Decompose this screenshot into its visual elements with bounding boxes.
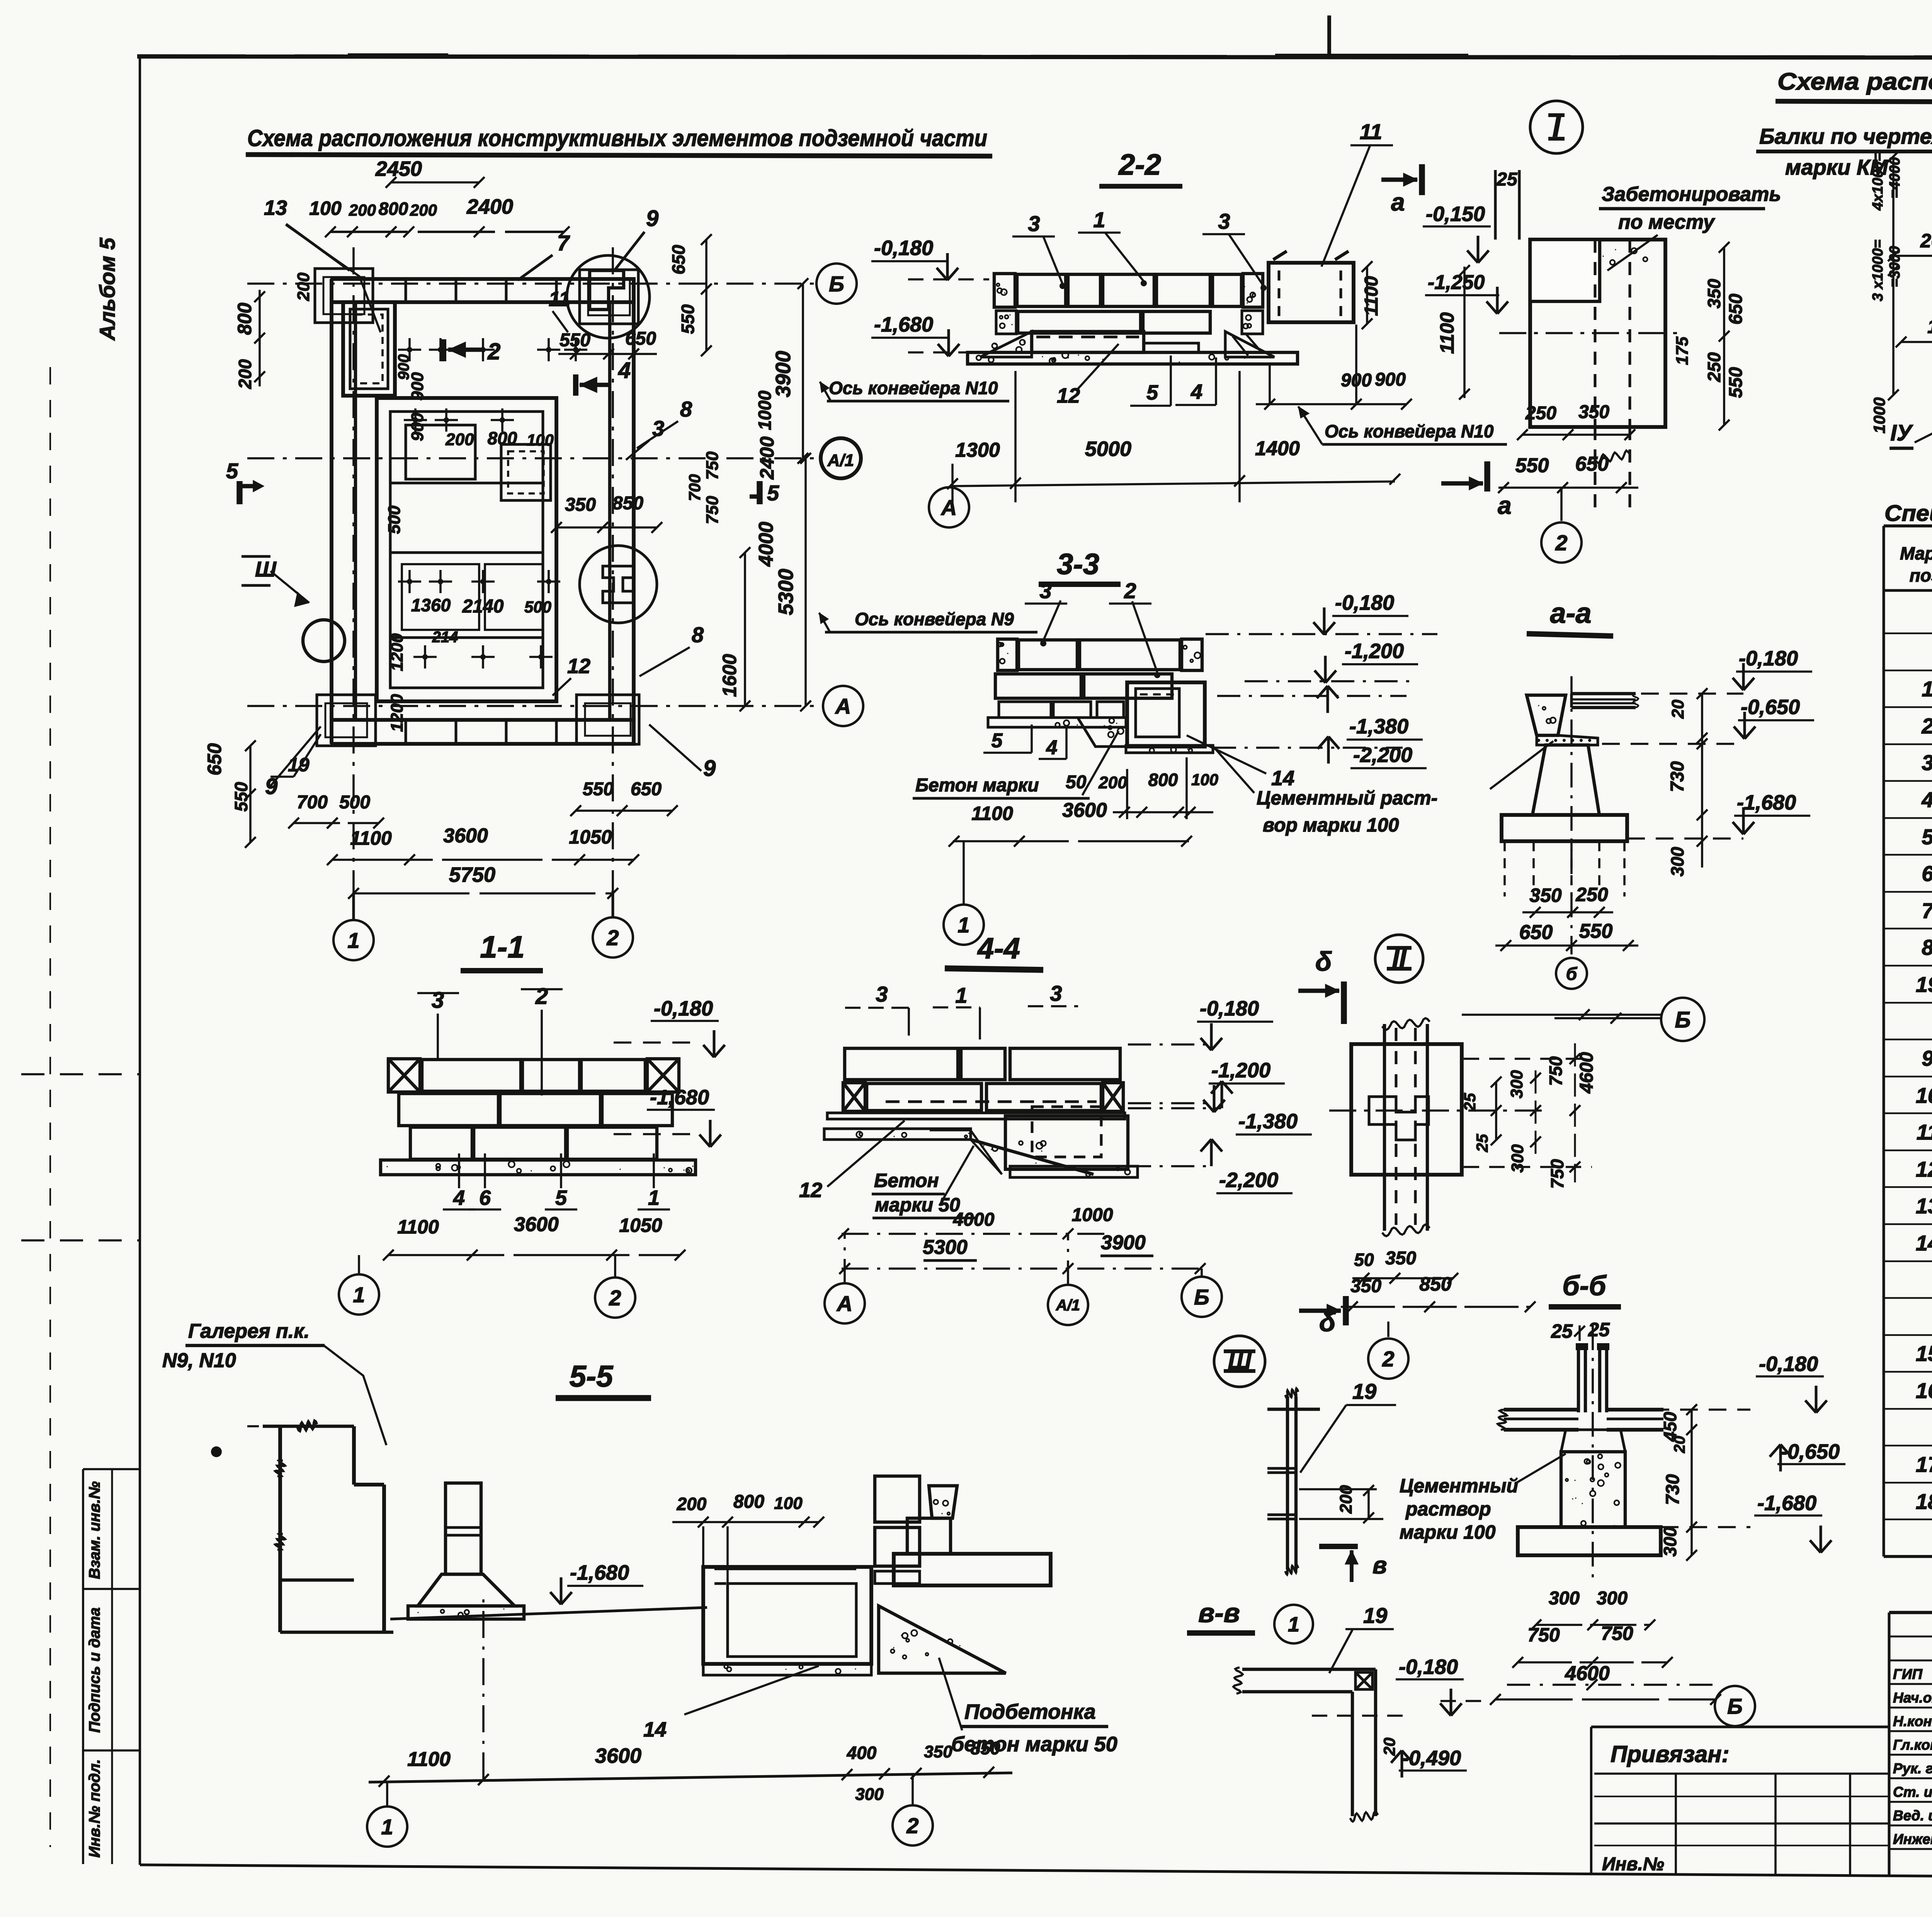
svg-text:3: 3 [1039,578,1051,603]
svg-text:3: 3 [1028,211,1040,236]
svg-text:750: 750 [703,451,722,480]
svg-text:А/1: А/1 [827,451,854,470]
svg-text:250: 250 [1575,884,1608,905]
svg-text:25: 25 [1473,1134,1491,1152]
svg-text:4: 4 [1921,788,1932,812]
svg-text:500: 500 [339,792,370,813]
svg-text:-0,180: -0,180 [1200,997,1259,1020]
svg-text:Цементный: Цементный [1400,1475,1518,1497]
svg-text:-0,180: -0,180 [1759,1352,1818,1376]
svg-text:700: 700 [297,792,328,813]
svg-text:-1,680: -1,680 [1757,1492,1816,1515]
svg-text:800: 800 [733,1492,764,1512]
svg-text:2450: 2450 [375,157,422,180]
svg-text:2: 2 [487,338,500,364]
svg-text:500: 500 [524,598,551,616]
svg-text:4-4: 4-4 [977,932,1020,965]
svg-text:1: 1 [957,913,969,937]
svg-text:Цементный раст-: Цементный раст- [1257,787,1437,809]
svg-text:2140: 2140 [462,596,504,617]
svg-text:200: 200 [677,1494,707,1514]
svg-text:1000: 1000 [1072,1205,1113,1225]
svg-text:350: 350 [924,1742,952,1761]
svg-text:2: 2 [1555,531,1567,555]
svg-text:850: 850 [1419,1273,1452,1295]
svg-text:вор марки 100: вор марки 100 [1263,814,1399,836]
svg-text:4: 4 [1046,737,1058,759]
svg-text:-0,650: -0,650 [1781,1440,1840,1463]
svg-text:5: 5 [992,730,1003,752]
svg-text:50: 50 [1066,772,1087,793]
svg-text:Ст. инж.: Ст. инж. [1893,1784,1932,1800]
svg-text:1: 1 [1093,208,1105,232]
svg-text:350: 350 [565,495,596,515]
svg-text:3900: 3900 [772,351,795,397]
svg-text:Б: Б [1675,1007,1690,1032]
svg-text:800: 800 [379,199,408,219]
svg-text:1600: 1600 [719,654,740,697]
svg-text:3600: 3600 [514,1213,559,1236]
svg-text:750: 750 [1547,1159,1567,1189]
svg-text:-0,180: -0,180 [1399,1655,1458,1679]
svg-text:3: 3 [876,982,888,1006]
svg-text:100: 100 [309,197,342,219]
svg-text:1: 1 [353,1283,365,1307]
svg-text:1100: 1100 [397,1216,439,1238]
svg-text:550: 550 [678,304,698,334]
svg-text:-0,150: -0,150 [1426,202,1485,226]
svg-text:3600: 3600 [443,825,488,847]
svg-text:550: 550 [1726,367,1746,398]
svg-text:1: 1 [648,1186,660,1209]
svg-text:12: 12 [1916,1157,1932,1181]
svg-text:Ось конвейера N10: Ось конвейера N10 [1325,421,1494,441]
svg-text:300: 300 [1667,847,1687,876]
svg-text:300: 300 [1508,1144,1527,1173]
svg-text:Ось конвейера N9: Ось конвейера N9 [855,609,1014,629]
svg-text:1200: 1200 [388,694,406,732]
svg-text:3: 3 [1218,209,1230,233]
svg-text:200: 200 [1920,230,1932,252]
svg-text:Бетон: Бетон [874,1170,939,1191]
svg-text:1000: 1000 [1870,397,1888,433]
svg-text:-0,180: -0,180 [1739,647,1798,670]
svg-text:4: 4 [1190,380,1202,403]
svg-text:Гл.констр.: Гл.констр. [1893,1737,1932,1753]
svg-text:А: А [940,495,957,520]
svg-text:1: 1 [1922,677,1932,701]
svg-text:2: 2 [1382,1347,1394,1371]
svg-text:200: 200 [235,359,255,389]
svg-text:раствор: раствор [1405,1498,1491,1520]
svg-text:550: 550 [1579,920,1613,942]
svg-text:N9, N10: N9, N10 [162,1349,236,1372]
svg-text:Н.контр.: Н.контр. [1893,1713,1932,1729]
svg-text:Инв.№ подл.: Инв.№ подл. [86,1759,103,1858]
svg-text:-0,180: -0,180 [1335,591,1394,614]
svg-text:=3000: =3000 [1887,246,1903,287]
svg-text:-1,200: -1,200 [1345,640,1404,663]
svg-text:Инв.№: Инв.№ [1602,1854,1664,1874]
svg-text:3 x1000=: 3 x1000= [1870,240,1886,301]
svg-text:19: 19 [1363,1603,1387,1628]
svg-text:25: 25 [1496,169,1518,190]
svg-text:50: 50 [1354,1250,1374,1270]
svg-text:2400: 2400 [756,436,778,480]
svg-text:250: 250 [1525,403,1556,424]
svg-text:650: 650 [1575,453,1609,475]
svg-text:100: 100 [774,1494,803,1513]
svg-text:14: 14 [643,1718,667,1741]
svg-text:175: 175 [1673,337,1692,365]
svg-text:IУ: IУ [1890,420,1913,446]
svg-text:700: 700 [685,474,704,501]
svg-text:Рук. гр.: Рук. гр. [1893,1761,1932,1776]
svg-text:15: 15 [1916,1341,1932,1366]
svg-text:2: 2 [535,984,548,1009]
svg-text:3: 3 [1922,750,1932,775]
svg-text:5: 5 [1922,825,1932,849]
svg-text:200: 200 [1098,773,1127,792]
svg-text:5-5: 5-5 [570,1359,614,1393]
svg-text:Б: Б [1194,1285,1209,1309]
svg-text:Подпись и дата: Подпись и дата [86,1607,103,1733]
svg-text:20: 20 [1380,1738,1398,1756]
svg-text:4000: 4000 [953,1209,995,1230]
svg-text:200: 200 [294,272,313,301]
svg-text:13: 13 [264,196,287,219]
svg-text:Б: Б [1727,1694,1743,1718]
svg-text:1100: 1100 [971,803,1013,824]
svg-text:-1,680: -1,680 [570,1561,629,1584]
svg-text:Подбетонка: Подбетонка [964,1700,1096,1723]
svg-text:8: 8 [680,397,692,421]
svg-text:11: 11 [549,287,570,311]
svg-text:1050: 1050 [569,826,612,848]
svg-text:14: 14 [1916,1231,1932,1255]
svg-text:9: 9 [1922,1046,1932,1070]
svg-text:3-3: 3-3 [1057,548,1099,581]
svg-text:300: 300 [1507,1070,1526,1099]
svg-text:3: 3 [432,988,444,1013]
svg-text:Взам. инв.№: Взам. инв.№ [86,1481,103,1579]
svg-text:-1,380: -1,380 [1238,1110,1298,1133]
svg-text:10: 10 [1916,1083,1932,1107]
svg-text:3: 3 [1050,981,1062,1005]
svg-text:1400: 1400 [1255,437,1300,460]
svg-text:850: 850 [612,493,643,514]
svg-text:5: 5 [555,1186,567,1209]
svg-text:8: 8 [692,623,704,647]
svg-text:δ: δ [1315,946,1332,976]
svg-text:350: 350 [1578,402,1609,422]
svg-text:Галерея п.к.: Галерея п.к. [188,1320,310,1342]
svg-text:200: 200 [349,201,376,219]
svg-text:11: 11 [1360,119,1382,144]
svg-text:25: 25 [1461,1093,1479,1111]
svg-text:500: 500 [385,505,404,534]
svg-text:-0,180: -0,180 [654,997,713,1020]
svg-text:Схема расположения плит покры: Схема расположения плит покрытия [1777,68,1932,95]
svg-text:2: 2 [1124,578,1136,603]
svg-text:250: 250 [1704,352,1724,382]
svg-text:Альбом 5: Альбом 5 [95,237,119,341]
svg-text:5: 5 [226,459,238,483]
svg-text:25: 25 [1551,1320,1573,1342]
svg-text:300: 300 [1597,1588,1628,1609]
svg-text:550: 550 [1515,454,1549,477]
svg-text:1: 1 [381,1815,393,1839]
svg-text:100: 100 [1191,771,1218,789]
svg-text:а: а [1391,188,1405,216]
svg-text:730: 730 [1663,1474,1683,1505]
svg-text:18: 18 [1916,1489,1932,1514]
svg-text:ГИП: ГИП [1893,1666,1923,1682]
svg-text:2400: 2400 [466,195,513,218]
svg-text:Нач.отд.: Нач.отд. [1893,1690,1932,1706]
svg-text:12: 12 [567,655,590,678]
svg-text:Привязан:: Привязан: [1611,1741,1729,1767]
svg-text:в-в: в-в [1198,1598,1240,1628]
svg-text:2: 2 [606,925,619,950]
svg-text:Балки по чертежам: Балки по чертежам [1759,124,1932,148]
svg-text:2: 2 [609,1286,621,1310]
svg-text:350: 350 [1704,279,1724,308]
svg-text:б-б: б-б [1562,1271,1607,1301]
svg-text:1100: 1100 [1927,316,1932,337]
svg-text:5300: 5300 [774,569,798,615]
svg-text:3600: 3600 [1062,799,1107,822]
svg-text:13: 13 [1916,1194,1932,1218]
svg-text:650: 650 [625,328,656,349]
svg-text:900: 900 [395,354,412,380]
svg-text:поз.: поз. [1910,565,1932,585]
svg-text:1100: 1100 [1436,312,1458,354]
svg-text:550: 550 [583,779,614,799]
svg-text:5: 5 [1146,381,1158,404]
svg-text:Спецификация к схемам располо: Спецификация к схемам расположения конст… [1884,501,1932,526]
svg-text:а: а [1498,492,1512,519]
svg-text:-1,250: -1,250 [1428,271,1485,294]
svg-text:20: 20 [1668,699,1687,719]
svg-text:-1,200: -1,200 [1211,1059,1270,1082]
svg-text:300: 300 [855,1785,884,1804]
svg-text:1: 1 [347,928,359,953]
svg-text:200: 200 [445,430,474,449]
svg-text:Марка: Марка [1900,543,1932,563]
svg-text:Схема расположения конструктив: Схема расположения конструктивных элемен… [247,125,987,151]
svg-text:100: 100 [527,431,554,449]
svg-text:650: 650 [1519,921,1553,944]
svg-text:750: 750 [703,496,722,524]
svg-text:11: 11 [1917,1120,1932,1144]
svg-text:900: 900 [1375,369,1406,390]
svg-text:650: 650 [668,245,689,274]
svg-text:1-1: 1-1 [480,930,525,964]
svg-text:-1,680: -1,680 [874,313,933,336]
svg-text:350: 350 [1385,1248,1416,1269]
svg-text:8: 8 [1922,935,1932,959]
svg-text:14: 14 [1271,767,1294,790]
svg-text:Ш: Ш [255,557,277,581]
svg-text:4x1000=: 4x1000= [1870,153,1886,211]
svg-text:750: 750 [1601,1623,1633,1644]
svg-text:2: 2 [906,1813,918,1838]
svg-text:1050: 1050 [619,1214,662,1236]
svg-text:7: 7 [557,231,570,255]
svg-text:4600: 4600 [1565,1662,1610,1685]
svg-text:19: 19 [1916,972,1932,997]
svg-text:-0,650: -0,650 [1741,696,1800,719]
svg-text:650: 650 [204,743,225,776]
svg-text:2-2: 2-2 [1118,148,1161,181]
svg-text:800: 800 [488,428,517,448]
svg-text:9: 9 [646,206,658,231]
svg-text:650: 650 [631,779,662,799]
svg-text:А: А [836,1291,852,1316]
svg-text:350: 350 [1350,1276,1381,1296]
svg-text:850: 850 [971,1738,1000,1758]
svg-text:Вед. инж.: Вед. инж. [1893,1808,1932,1823]
svg-text:200: 200 [410,201,437,219]
svg-text:800: 800 [234,303,255,335]
svg-text:марки 50: марки 50 [875,1194,960,1216]
svg-text:650: 650 [1726,294,1746,325]
svg-text:марки 100: марки 100 [1400,1521,1496,1543]
svg-text:730: 730 [1667,761,1688,792]
svg-text:Ось конвейера N10: Ось конвейера N10 [829,378,998,398]
svg-text:7: 7 [1922,898,1932,923]
svg-text:-1,680: -1,680 [1737,791,1796,814]
svg-text:1: 1 [1288,1613,1299,1636]
svg-text:17: 17 [1916,1452,1932,1476]
svg-text:350: 350 [1529,885,1562,906]
svg-text:3600: 3600 [595,1744,641,1767]
svg-text:300: 300 [1549,1588,1580,1609]
svg-text:-2,200: -2,200 [1219,1169,1278,1192]
svg-text:А/1: А/1 [1056,1297,1080,1314]
svg-text:Забетонировать: Забетонировать [1602,183,1781,206]
svg-text:12: 12 [1057,384,1080,407]
svg-text:1100: 1100 [407,1748,451,1771]
svg-text:а-а: а-а [1550,597,1592,629]
svg-text:400: 400 [847,1743,877,1763]
svg-text:16: 16 [1916,1378,1932,1403]
svg-text:=4000: =4000 [1887,157,1903,199]
svg-text:4: 4 [453,1186,465,1209]
svg-text:5: 5 [767,481,779,505]
svg-text:4000: 4000 [755,522,777,567]
svg-text:20: 20 [1671,1436,1688,1454]
svg-text:1200: 1200 [388,633,406,671]
svg-text:Бетон марки: Бетон марки [915,775,1039,796]
svg-text:2: 2 [1921,714,1932,738]
svg-text:900: 900 [408,413,427,441]
svg-text:3900: 3900 [1101,1232,1146,1254]
svg-text:-0,490: -0,490 [1402,1747,1461,1770]
svg-text:в: в [1372,1552,1387,1579]
svg-text:750: 750 [1546,1056,1566,1086]
svg-text:6: 6 [1922,861,1932,886]
svg-text:1: 1 [955,983,967,1007]
svg-text:5300: 5300 [923,1236,968,1259]
svg-text:5750: 5750 [449,863,495,886]
svg-text:Б: Б [829,272,844,296]
svg-text:-1,380: -1,380 [1349,715,1408,738]
svg-text:25: 25 [1588,1319,1610,1340]
svg-text:9: 9 [703,756,716,781]
svg-text:6: 6 [479,1186,491,1209]
svg-text:А: А [835,694,851,718]
svg-text:4: 4 [618,358,631,383]
svg-text:-0,180: -0,180 [874,236,933,260]
svg-text:1000: 1000 [755,390,775,430]
svg-text:19: 19 [1352,1379,1376,1403]
svg-text:214: 214 [432,629,458,646]
svg-text:1100: 1100 [350,827,392,849]
svg-text:750: 750 [1527,1624,1560,1646]
svg-text:5000: 5000 [1085,437,1131,461]
svg-text:12: 12 [799,1179,822,1202]
svg-text:1360: 1360 [411,595,451,615]
svg-text:по месту: по месту [1618,211,1716,233]
svg-text:1300: 1300 [955,439,1000,461]
svg-text:800: 800 [1148,770,1178,790]
svg-text:1100: 1100 [1361,276,1382,316]
svg-text:б: б [1566,964,1578,984]
svg-text:300: 300 [1660,1527,1680,1556]
svg-text:550: 550 [560,330,590,350]
svg-text:Инженер: Инженер [1893,1831,1932,1847]
